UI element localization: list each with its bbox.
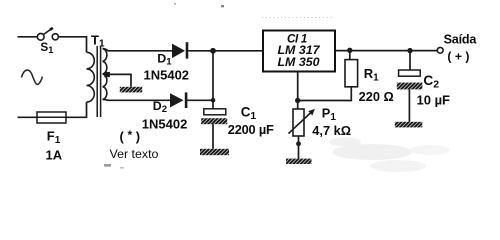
capacitor C2 xyxy=(397,70,423,89)
wire center tap xyxy=(109,74,131,86)
label ( + ) xyxy=(447,50,469,64)
label Ver texto xyxy=(110,147,159,161)
wire regulator adjust pin xyxy=(297,72,299,101)
label 2200 uF xyxy=(228,122,274,137)
svg-text:C2: C2 xyxy=(423,73,439,90)
switch S1 xyxy=(37,28,58,40)
node R1 junction xyxy=(347,48,352,53)
wire P1 to ground xyxy=(298,136,300,159)
svg-text:1N5402: 1N5402 xyxy=(142,117,188,132)
wire secondary bottom to D2 xyxy=(103,98,170,101)
svg-text:( + ): ( + ) xyxy=(447,50,469,64)
label P1 xyxy=(322,106,337,123)
svg-text:( * ): ( * ) xyxy=(120,128,141,144)
wire D1 to regulator input xyxy=(188,50,263,52)
svg-text:P1: P1 xyxy=(322,106,337,123)
label 220 ohm xyxy=(359,89,394,104)
node rectifier junction xyxy=(210,48,216,54)
transformer T1 primary winding xyxy=(87,52,95,102)
resistor R1 xyxy=(345,60,358,87)
wire main node vertical xyxy=(212,51,214,101)
wire secondary top to D1 xyxy=(103,49,172,51)
op-amp box CI1 regulator xyxy=(263,31,335,72)
svg-text:Saída: Saída xyxy=(444,33,478,47)
svg-text:220 Ω: 220 Ω xyxy=(359,89,394,104)
chassis bar center tap (*) xyxy=(120,87,142,93)
potentiometer P1 xyxy=(289,109,315,136)
diode D1 xyxy=(172,42,188,58)
label 1N5402 lower xyxy=(142,117,188,132)
label S1 xyxy=(40,40,53,55)
svg-text:C1: C1 xyxy=(241,105,257,122)
capacitor C1 xyxy=(201,109,227,124)
node P1 wiper tie xyxy=(296,141,301,146)
scan noise artifacts xyxy=(104,3,450,172)
svg-text:2200 µF: 2200 µF xyxy=(228,122,274,137)
wire C1 to ground xyxy=(212,124,214,149)
svg-text:S1: S1 xyxy=(40,40,53,55)
svg-text:D1: D1 xyxy=(157,52,172,68)
label C1 xyxy=(241,105,257,122)
label F1 xyxy=(47,129,61,146)
svg-text:D2: D2 xyxy=(153,99,167,115)
label LM 350 xyxy=(277,55,319,69)
wire node to C1 xyxy=(212,100,214,109)
wire switch to transformer xyxy=(58,37,86,53)
label LM 317 xyxy=(277,43,320,57)
diode D2 xyxy=(170,92,187,108)
svg-text:1A: 1A xyxy=(46,148,63,163)
wire regulator output xyxy=(335,50,437,52)
transformer T1 core xyxy=(97,46,100,117)
svg-text:Ver texto: Ver texto xyxy=(110,147,159,161)
output terminal Saida xyxy=(437,47,443,53)
label 1N5402 upper xyxy=(144,67,190,82)
wire adjust to P1 xyxy=(297,101,299,110)
center tap node xyxy=(104,72,110,77)
node D2 junction xyxy=(211,98,216,103)
AC sine symbol xyxy=(22,70,43,84)
node C2 junction xyxy=(407,48,412,53)
svg-text:10 µF: 10 µF xyxy=(417,93,451,108)
wire R1 bottom to adjust node xyxy=(298,87,352,101)
label C2 xyxy=(423,73,439,90)
ground P1 xyxy=(286,159,312,164)
label 10 uF xyxy=(417,93,451,108)
ground C2 xyxy=(395,122,423,128)
svg-text:R1: R1 xyxy=(364,66,379,84)
node adjust junction xyxy=(295,98,300,103)
label 4,7 kOhm xyxy=(312,123,351,138)
label D1 xyxy=(157,52,172,68)
label 1A xyxy=(46,148,63,163)
fuse F1 xyxy=(18,112,67,123)
label R1 xyxy=(364,66,379,84)
svg-text:T1: T1 xyxy=(91,33,105,50)
label Saida xyxy=(444,33,478,47)
label ( * ) xyxy=(120,128,141,144)
wire C2 top xyxy=(409,51,411,70)
wire primary to fuse xyxy=(66,102,87,117)
svg-text:1N5402: 1N5402 xyxy=(144,67,190,82)
svg-text:4,7 kΩ: 4,7 kΩ xyxy=(312,123,351,138)
label CI 1 xyxy=(287,34,307,46)
svg-text:F1: F1 xyxy=(47,129,61,146)
label D2 xyxy=(153,99,167,115)
wire D2 to node xyxy=(187,99,213,101)
transformer T1 secondary winding xyxy=(103,49,107,100)
label T1 xyxy=(91,33,105,50)
wire C2 to ground xyxy=(408,89,410,121)
svg-text:LM 350: LM 350 xyxy=(277,55,319,69)
ground C1 xyxy=(200,149,229,155)
wire AC live top xyxy=(18,36,38,38)
wire R1 top xyxy=(349,50,351,59)
